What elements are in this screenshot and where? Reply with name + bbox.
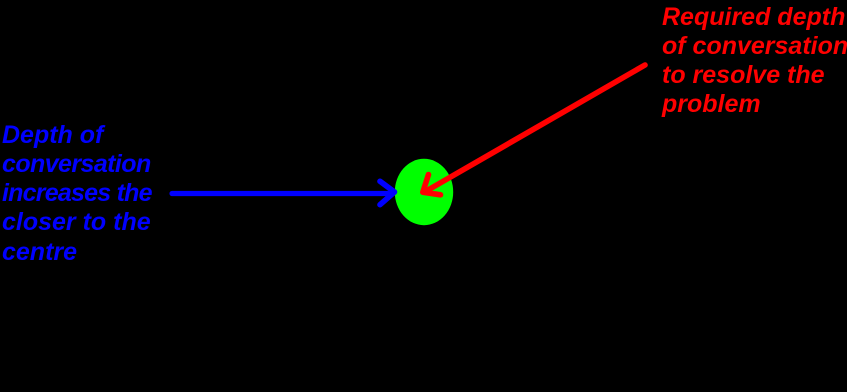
green centre node (395, 159, 453, 225)
red arrow head (423, 175, 441, 195)
red arrow shaft (428, 65, 645, 190)
blue arrow shaft (172, 191, 388, 196)
blue arrow head (380, 181, 395, 204)
label: depth of conversation (blue) (2, 121, 152, 267)
label: required depth (red) (662, 3, 847, 120)
